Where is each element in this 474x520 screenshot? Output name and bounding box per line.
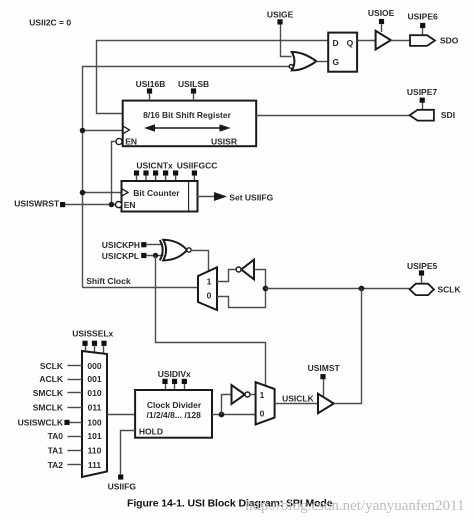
node: shift clock / bit counter clock junction — [80, 190, 86, 196]
svg-text:USIPE5: USIPE5 — [407, 261, 438, 271]
svg-text:Bit Counter: Bit Counter — [133, 188, 180, 198]
wire stub USILSB — [193, 94, 195, 101]
wire USISWCLK input dash — [70, 422, 82, 424]
wire: EN enable vertical between registers — [112, 142, 116, 205]
wire: clock mux output to clock divider — [107, 414, 135, 416]
wire: shift clock to bit counter clock input — [83, 192, 122, 194]
wire: inverter to mux input 1 — [250, 394, 256, 396]
svg-text:USICKPH: USICKPH — [102, 240, 140, 250]
pin SDI — [410, 110, 434, 121]
svg-text:TA2: TA2 — [48, 460, 64, 470]
svg-text:Clock Divider: Clock Divider — [147, 400, 202, 410]
wire: shift clock vertical / to OR gate inverted input — [83, 67, 290, 288]
wire stubs USISSELx to mux — [86, 346, 104, 354]
svg-text:0: 0 — [207, 291, 212, 301]
wire ACLK input dash — [68, 379, 83, 381]
svg-text:USISWRST: USISWRST — [14, 198, 60, 208]
svg-text:USICNTx: USICNTx — [136, 160, 173, 170]
wire TA1 input dash — [68, 450, 83, 452]
wire: buffer to SDO pin — [391, 40, 410, 42]
wire: USICKPL to XNOR — [146, 255, 163, 257]
node: USISWRST / EN junction — [109, 202, 115, 208]
output buffer (SDO) — [376, 31, 391, 50]
svg-text:USICLK: USICLK — [282, 393, 315, 403]
svg-text:SDI: SDI — [441, 110, 455, 120]
wire stub USI16B — [149, 94, 151, 101]
square USIIFG — [118, 474, 123, 479]
bubble on OR gate lower input — [289, 65, 293, 69]
square USICKPH — [141, 242, 146, 247]
OR gate U-gate — [292, 52, 316, 70]
pin SDO — [410, 35, 435, 46]
svg-text:001: 001 — [87, 374, 101, 384]
wire TA0 input dash — [68, 436, 83, 438]
svg-text:USIIFG: USIIFG — [108, 481, 137, 491]
svg-text:USIPE7: USIPE7 — [407, 87, 438, 97]
svg-text:Q: Q — [347, 38, 354, 48]
wire: USICLK mux output to master buffer — [275, 403, 318, 405]
svg-text:USILSB: USILSB — [178, 79, 209, 89]
labels mux select codes — [87, 361, 101, 470]
wire: junction up to inverter input — [222, 395, 232, 415]
square USISWCLK — [64, 420, 69, 425]
wire: shift register to SDI pin — [256, 115, 410, 117]
bit counter internal divider — [188, 181, 190, 212]
wire SCLK input dash — [68, 365, 83, 367]
svg-text:USISWCLK: USISWCLK — [18, 418, 64, 428]
wire stub USIPE6 — [422, 28, 424, 35]
wire: USISWRST to EN bubbles — [65, 204, 116, 206]
clock triangle (shift register) — [123, 126, 130, 134]
svg-text:SDO: SDO — [440, 36, 459, 46]
wire: buffer output up to SCLK node — [334, 289, 362, 404]
wire: mux input 1 to inverter output — [217, 270, 236, 282]
node: USICKPL tap junction — [153, 253, 158, 258]
wire: shift register MSB to latch D input — [97, 41, 329, 114]
svg-text:G: G — [332, 57, 339, 67]
svg-text:USIDIVx: USIDIVx — [158, 369, 191, 379]
square USIGE — [277, 19, 282, 24]
svg-text:Shift Clock: Shift Clock — [86, 276, 131, 286]
EN bubble (shift register) — [116, 138, 122, 144]
arrowhead Set USIIFG — [214, 192, 227, 201]
svg-text:USI16B: USI16B — [136, 79, 166, 89]
svg-text:SMCLK: SMCLK — [33, 403, 64, 413]
svg-text:USIOE: USIOE — [368, 8, 395, 18]
svg-text:USISR: USISR — [211, 137, 237, 147]
wire SMCLK2 input dash — [68, 407, 83, 409]
svg-text:USIIFGCC: USIIFGCC — [177, 160, 218, 170]
node: SCLK / USICLK buffer junction — [359, 286, 365, 292]
master clock buffer — [318, 394, 334, 413]
clock divider box — [135, 390, 212, 438]
svg-text:8/16 Bit Shift Register: 8/16 Bit Shift Register — [143, 110, 232, 120]
svg-text:USIMST: USIMST — [308, 363, 341, 373]
svg-text:SCLK: SCLK — [438, 285, 462, 295]
inverter (SCLK feedback, points left) — [236, 260, 254, 280]
svg-text:TA0: TA0 — [48, 431, 64, 441]
svg-text:USIGE: USIGE — [267, 10, 294, 20]
square USIPE5 — [419, 270, 424, 275]
wire SMCLK input dash — [68, 392, 83, 394]
svg-text:SCLK: SCLK — [40, 361, 64, 371]
svg-text:HOLD: HOLD — [139, 426, 163, 436]
wire stub USIOE to buffer — [381, 24, 383, 32]
square USIOE — [379, 19, 384, 24]
bit counter box — [122, 181, 198, 212]
node: SCLK feedback junction — [263, 286, 269, 292]
wire: HOLD input from USIIFG — [121, 431, 136, 475]
shift register bidirectional arrow — [144, 124, 231, 131]
svg-text:USISSELx: USISSELx — [72, 329, 113, 339]
wire: OR output to latch G — [316, 61, 328, 63]
wire: shift clock output from mux — [83, 287, 199, 289]
squares USICNTx (5) — [134, 170, 178, 175]
square USICKPL — [141, 253, 146, 258]
svg-text:011: 011 — [88, 403, 102, 413]
wire: clock divider output — [212, 414, 256, 416]
svg-text:http://blog.csdn.net/yanyuanfe: http://blog.csdn.net/yanyuanfen2011 — [245, 498, 464, 514]
clock source mux (8:1) — [82, 351, 107, 477]
square USISWRST — [60, 202, 65, 207]
svg-text:1: 1 — [260, 390, 265, 400]
svg-text:D: D — [333, 38, 339, 48]
square USILSB — [191, 88, 196, 93]
wire: SCLK line to pin — [266, 288, 410, 290]
square USIMST — [320, 374, 325, 379]
wire: mux input 0 to SCLK node — [217, 289, 266, 308]
wire: latch Q to output buffer — [357, 40, 376, 42]
wire stubs control squares to bit counter — [137, 176, 195, 181]
clock triangle (bit counter) — [122, 189, 129, 197]
svg-text:000: 000 — [87, 361, 101, 371]
svg-text:USIPE6: USIPE6 — [408, 11, 439, 21]
svg-text:110: 110 — [88, 446, 102, 456]
wire stubs USIDIVx to clock divider — [166, 384, 185, 390]
svg-text:EN: EN — [125, 137, 137, 147]
svg-text:USICKPL: USICKPL — [102, 251, 139, 261]
wire: shift clock to shift register clock input — [83, 130, 123, 132]
wire stub USIPE7 — [422, 103, 424, 110]
wire: USICKPL to USICLK mux select — [156, 256, 266, 387]
svg-text:/1/2/4/8... /128: /1/2/4/8... /128 — [147, 410, 202, 420]
wire TA2 input dash — [68, 464, 83, 466]
wire: XNOR output to shift-clock mux select — [192, 251, 209, 272]
USICLK polarity mux — [256, 382, 275, 424]
svg-text:EN: EN — [124, 200, 136, 210]
square USIPE7 — [420, 98, 425, 103]
svg-text:100: 100 — [87, 418, 101, 428]
wire: USIGE to OR gate — [281, 25, 292, 57]
wire stub USIPE5 — [421, 276, 423, 284]
svg-text:USII2C = 0: USII2C = 0 — [29, 18, 71, 28]
wire: bit counter to Set USIIFG — [198, 196, 216, 198]
svg-text:0: 0 — [260, 409, 265, 419]
XNOR gate (clock polarity) — [160, 240, 191, 261]
svg-text:101: 101 — [87, 431, 101, 441]
shift clock polarity mux — [198, 267, 217, 310]
wire stub USIMST to buffer — [323, 379, 325, 397]
node: shift clock / SR clock junction — [80, 128, 86, 134]
svg-text:TA1: TA1 — [48, 446, 64, 456]
square USIPE6 — [420, 23, 425, 28]
svg-text:ACLK: ACLK — [39, 374, 63, 384]
svg-text:1: 1 — [207, 277, 212, 287]
wire: inverter input from SCLK node — [254, 270, 266, 289]
EN bubble (bit counter) — [116, 202, 122, 208]
squares USIDIVx (3) — [162, 379, 187, 384]
squares USISSELx (3) — [82, 341, 106, 346]
svg-text:SMCLK: SMCLK — [33, 388, 64, 398]
latch box D/G — [328, 33, 357, 72]
svg-text:010: 010 — [87, 388, 101, 398]
svg-text:111: 111 — [88, 460, 102, 470]
inverter (USICLK polarity) — [232, 385, 251, 404]
node: divider output junction — [219, 412, 225, 418]
wire: USICKPH to XNOR — [146, 244, 163, 246]
square USIIFGCC — [192, 170, 197, 175]
pin SCLK (bidirectional) — [410, 284, 434, 295]
shift register box USISR — [123, 101, 257, 147]
square USI16B — [147, 88, 152, 93]
svg-text:Set USIIFG: Set USIIFG — [229, 193, 273, 203]
